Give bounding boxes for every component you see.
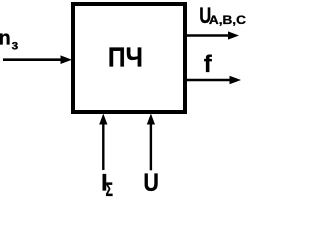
svg-text:з: з [12, 38, 19, 53]
wire f output [187, 79, 231, 82]
label f output [204, 51, 213, 78]
svg-text:ПЧ: ПЧ [108, 41, 143, 72]
arrowhead I_sigma feedback [99, 114, 107, 125]
svg-text:A,B,C: A,B,C [209, 14, 247, 27]
arrowhead U_A,B,C output [228, 31, 239, 39]
wire I_sigma feedback [102, 121, 104, 170]
wire U_A,B,C output [187, 34, 230, 37]
arrowhead n3 input [61, 55, 73, 64]
arrowhead U feedback [147, 114, 155, 125]
label U feedback [143, 169, 159, 197]
label I_sigma [101, 170, 113, 202]
block ПЧ (frequency converter) box [73, 4, 185, 112]
svg-text:f: f [204, 51, 213, 78]
label ПЧ [108, 41, 143, 72]
svg-text:Σ: Σ [106, 180, 113, 199]
svg-text:n: n [0, 27, 11, 49]
arrowhead f output [230, 76, 242, 85]
wire U feedback [150, 121, 152, 170]
wire n3 input [3, 58, 63, 61]
label U_A,B,C output [199, 3, 246, 28]
label n3 (setpoint speed) [0, 27, 19, 52]
svg-text:U: U [143, 169, 159, 197]
